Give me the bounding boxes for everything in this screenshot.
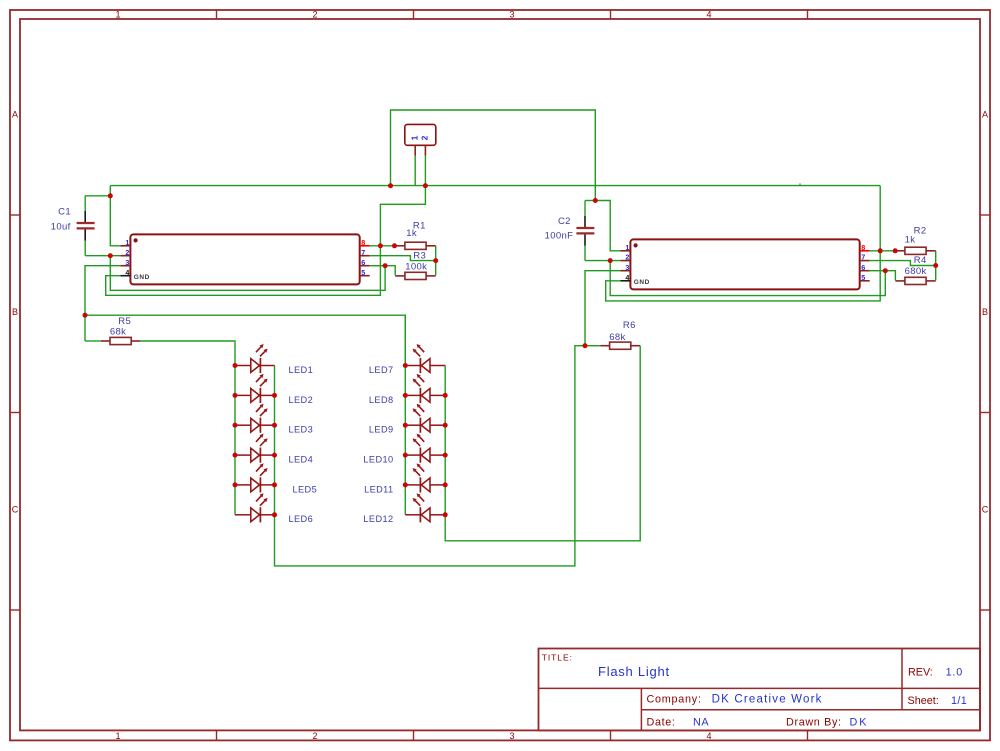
svg-text:6: 6: [361, 258, 365, 267]
junction LED anode bus: [233, 453, 238, 458]
svg-text:100nF: 100nF: [545, 231, 574, 242]
svg-text:1: 1: [125, 238, 129, 247]
resistor R2 left lead: [895, 250, 905, 252]
junction U1 pin8: [378, 243, 383, 248]
IC U2 pin 5 stub: [860, 280, 870, 282]
wire H1 pin1 to rail: [414, 156, 416, 186]
svg-text:LED6: LED6: [289, 514, 314, 524]
wire U2 pin6 to R4: [885, 271, 895, 281]
resistor R5 right lead: [131, 340, 140, 342]
resistor R4 body: [905, 277, 926, 284]
wire H1 pin2 to rail: [424, 156, 426, 186]
frame column labels top: [115, 10, 711, 20]
IC U1 pin 5 stub: [360, 275, 370, 277]
wire U1 pin3 to R5 node: [85, 266, 120, 316]
IC U2 pin 6 stub: [860, 270, 870, 272]
wire R6 node to LED1-6 return: [275, 346, 586, 566]
LED LED6: [235, 493, 275, 522]
junction rail / top loop: [388, 183, 393, 188]
IC U2 pin 3 stub: [620, 270, 630, 272]
svg-text:1k: 1k: [406, 228, 417, 239]
svg-text:3: 3: [509, 731, 514, 741]
svg-text:R3: R3: [413, 251, 426, 262]
wire R2 to R4 right side: [935, 251, 937, 281]
LED LED4: [235, 434, 275, 463]
svg-text:LED8: LED8: [369, 395, 394, 405]
svg-text:Drawn By:: Drawn By:: [786, 716, 842, 728]
wire U2 pin6 branch: [870, 270, 886, 272]
wire stub on rail: [799, 183, 801, 185]
resistor R1 body: [405, 242, 426, 249]
svg-text:1k: 1k: [905, 234, 916, 245]
svg-text:LED1: LED1: [289, 365, 314, 375]
resistor R3 left lead: [395, 275, 405, 277]
svg-text:2: 2: [420, 135, 430, 140]
svg-text:LED2: LED2: [289, 395, 314, 405]
wire U1 pin8 to R1: [370, 245, 395, 247]
svg-text:7: 7: [361, 248, 365, 257]
wire U1 pin7 to R1/R3 node: [370, 256, 436, 261]
wire U2 pin7 to R2/R4 node: [870, 261, 936, 266]
junction LED anode bus: [233, 423, 238, 428]
wire U1 pin6 to R3: [385, 266, 395, 276]
svg-text:5: 5: [861, 273, 865, 282]
svg-text:C2: C2: [558, 216, 571, 227]
junction rail / H1 pin2: [423, 183, 428, 188]
resistor R6 right lead: [631, 345, 640, 347]
frame column labels bottom: [115, 731, 711, 741]
junction LED cathode bus right: [443, 453, 448, 458]
svg-text:68k: 68k: [609, 332, 625, 343]
svg-text:LED11: LED11: [364, 484, 393, 494]
svg-text:LED7: LED7: [369, 365, 394, 375]
svg-text:DK Creative Work: DK Creative Work: [712, 693, 823, 705]
junction LED anode bus right: [403, 393, 408, 398]
svg-text:LED12: LED12: [363, 514, 393, 524]
junction C1 / pin2 / 2-6 tie: [108, 253, 113, 258]
frame row labels right: [982, 110, 989, 515]
svg-text:Sheet:: Sheet:: [908, 695, 939, 707]
wire U2 pin2 to pin6 tie: [610, 261, 885, 296]
wire C2 top branch: [585, 200, 595, 202]
svg-text:C1: C1: [58, 206, 71, 217]
wire R6 left lead link: [585, 345, 600, 347]
svg-text:3: 3: [509, 10, 514, 20]
svg-text:Date:: Date:: [647, 716, 676, 728]
junction LED anode bus right: [403, 423, 408, 428]
svg-text:680k: 680k: [905, 266, 927, 277]
wire R6 to LED7-12 return: [445, 346, 640, 541]
svg-text:1/1: 1/1: [951, 695, 967, 707]
wire U1 pin2 to pin6 tie: [110, 256, 385, 291]
title block frame: [539, 649, 981, 731]
junction R6: [583, 343, 588, 348]
svg-text:NA: NA: [693, 716, 709, 728]
IC U1 pin 8 stub: [360, 245, 370, 247]
svg-text:4: 4: [625, 273, 629, 282]
junction R1 lead: [392, 243, 397, 248]
IC U1 pin 4 stub (GND): [120, 275, 130, 277]
junction LED anode bus: [233, 482, 238, 487]
LED LED3: [235, 404, 275, 433]
wire C2 node to U2 pin1: [595, 201, 620, 251]
svg-text:C: C: [12, 505, 19, 515]
svg-text:7: 7: [861, 253, 865, 262]
LED LED7: [405, 344, 445, 373]
junction LED cathode bus: [272, 453, 277, 458]
wire R1 to R3 right side: [435, 246, 437, 276]
resistor R4 left lead: [895, 280, 905, 282]
junction R5 / LED rail: [83, 313, 88, 318]
svg-text:A: A: [982, 110, 988, 120]
wire U2 pin8 rail corner: [879, 186, 881, 251]
wire main power rail: [110, 185, 880, 187]
svg-text:8: 8: [361, 238, 365, 247]
IC U1 pin 2 stub: [120, 255, 130, 257]
wire C1 top branch: [85, 195, 110, 197]
junction LED cathode bus right: [443, 482, 448, 487]
junction U2 pin8: [878, 248, 883, 253]
svg-text:Company:: Company:: [647, 693, 702, 705]
LED LED10: [405, 434, 445, 463]
IC U1 pin 3 stub: [120, 265, 130, 267]
IC U2 pin-1 marker dot: [634, 243, 638, 247]
LED LED11: [405, 463, 445, 492]
wire C1 bottom to U1 pin 2: [85, 255, 120, 257]
junction U1 pin6: [383, 263, 388, 268]
wire R5 to LED1 bus: [140, 341, 235, 366]
svg-text:LED5: LED5: [293, 484, 318, 494]
junction LED cathode bus: [272, 393, 277, 398]
resistor R6 body: [610, 342, 631, 349]
svg-text:REV:: REV:: [908, 667, 933, 679]
IC U1 body: [130, 234, 359, 284]
frame row ticks right: [980, 215, 990, 610]
resistor R2 right lead: [926, 250, 936, 252]
IC U2 pin 2 stub: [620, 260, 630, 262]
junction R2-R4 / pin7: [933, 263, 938, 268]
IC U2 body: [630, 239, 859, 289]
junction LED anode bus: [233, 393, 238, 398]
LED LED2: [235, 374, 275, 403]
svg-text:R2: R2: [914, 226, 927, 237]
svg-text:DK: DK: [850, 716, 869, 728]
resistor R1 left lead: [395, 245, 405, 247]
resistor R5 body: [110, 337, 131, 344]
wire U1 pin4 to pin8 tie: [106, 246, 381, 295]
svg-text:10uf: 10uf: [51, 222, 71, 233]
svg-text:LED3: LED3: [289, 425, 314, 435]
wire U2 pin8 to R2: [870, 250, 896, 252]
wire LED7-12 anode bus: [404, 315, 406, 515]
svg-text:1: 1: [115, 10, 120, 20]
IC U2 pin 4 stub (GND): [620, 280, 630, 282]
wire C2 bottom to U2 pin 2: [585, 260, 620, 262]
svg-text:R4: R4: [914, 255, 927, 266]
junction R2 lead: [893, 248, 898, 253]
LED LED9: [405, 404, 445, 433]
svg-text:Flash Light: Flash Light: [598, 664, 670, 679]
svg-text:2: 2: [312, 10, 317, 20]
svg-text:2: 2: [625, 253, 629, 262]
connector H1 body: [405, 124, 436, 145]
junction LED cathode bus right: [443, 512, 448, 517]
svg-text:3: 3: [625, 263, 629, 272]
svg-text:GND: GND: [634, 279, 650, 286]
svg-text:1: 1: [409, 135, 419, 140]
LED LED1: [235, 344, 275, 373]
junction C2 / pin2 / 2-6 tie: [608, 258, 613, 263]
junction LED anode bus: [233, 363, 238, 368]
LED LED12: [405, 493, 445, 522]
wire R5 node down: [84, 315, 86, 341]
svg-text:R6: R6: [623, 320, 636, 331]
junction rail drop / C1: [108, 193, 113, 198]
IC U1 pin 6 stub: [360, 265, 370, 267]
wire rail down to U1 pin 1: [110, 186, 120, 246]
svg-text:5: 5: [361, 268, 365, 277]
resistor R1 right lead: [426, 245, 436, 247]
wire U2 pin3 to R6 node: [585, 271, 620, 346]
LED LED8: [405, 374, 445, 403]
junction LED anode bus right: [403, 453, 408, 458]
wire top loop: [391, 110, 596, 201]
junction R1-R3 / pin7: [433, 258, 438, 263]
frame row ticks left: [10, 215, 20, 610]
LED LED5: [235, 463, 275, 492]
svg-text:8: 8: [861, 243, 865, 252]
IC U2 pin 1 stub: [620, 250, 630, 252]
svg-text:4: 4: [706, 731, 711, 741]
svg-text:2: 2: [125, 248, 129, 257]
wire U1 pin6 branch: [370, 265, 385, 267]
svg-text:C: C: [982, 505, 989, 515]
wire U1 pin8 rail jog: [380, 186, 425, 246]
svg-text:68k: 68k: [110, 326, 126, 337]
frame column ticks bottom: [217, 730, 808, 740]
IC U1 pin 1 stub: [120, 245, 130, 247]
svg-text:1.0: 1.0: [946, 667, 963, 679]
frame column ticks top: [217, 10, 808, 19]
wire R5 left lead link: [85, 340, 101, 342]
resistor R5 left lead: [101, 340, 110, 342]
resistor R6 left lead: [600, 345, 609, 347]
connector H1 pin 1 stub: [414, 145, 416, 156]
junction LED cathode bus: [272, 482, 277, 487]
junction LED cathode bus right: [443, 423, 448, 428]
svg-text:100k: 100k: [405, 261, 427, 272]
IC U2 pin 7 stub: [860, 260, 870, 262]
resistor R4 right lead: [926, 280, 936, 282]
svg-text:6: 6: [861, 263, 865, 272]
svg-text:GND: GND: [134, 274, 150, 281]
junction U2 pin6: [883, 268, 888, 273]
IC U1 pin-1 marker dot: [134, 238, 138, 242]
svg-text:1: 1: [625, 243, 629, 252]
svg-text:4: 4: [706, 10, 711, 20]
svg-text:2: 2: [312, 731, 317, 741]
svg-text:3: 3: [125, 258, 129, 267]
junction LED anode bus right: [403, 482, 408, 487]
junction LED cathode bus: [272, 423, 277, 428]
svg-text:LED10: LED10: [363, 455, 393, 465]
resistor R3 body: [405, 272, 426, 279]
IC U2 pin 8 stub: [860, 250, 870, 252]
capacitor C2: [576, 201, 594, 261]
wire U2 pin4 to pin8 tie: [606, 251, 881, 301]
resistor R3 right lead: [426, 275, 436, 277]
IC U1 pin 7 stub: [360, 255, 370, 257]
junction LED anode bus right: [403, 363, 408, 368]
svg-text:A: A: [12, 110, 18, 120]
connector H1 pin 2 stub: [424, 145, 426, 156]
svg-text:LED4: LED4: [289, 455, 314, 465]
junction LED cathode bus: [272, 512, 277, 517]
resistor R2 body: [905, 247, 926, 254]
capacitor C1: [77, 196, 95, 256]
junction LED cathode bus right: [443, 393, 448, 398]
svg-text:LED9: LED9: [369, 425, 394, 435]
svg-text:TITLE:: TITLE:: [542, 653, 573, 663]
svg-text:4: 4: [125, 268, 129, 277]
svg-text:B: B: [982, 307, 988, 317]
wire LED1-6 anode bus: [234, 366, 236, 515]
junction top loop / C2: [593, 198, 598, 203]
svg-text:B: B: [12, 307, 18, 317]
wire LED7 feed rail: [85, 315, 405, 365]
svg-text:1: 1: [115, 731, 120, 741]
frame row labels left: [12, 110, 19, 515]
